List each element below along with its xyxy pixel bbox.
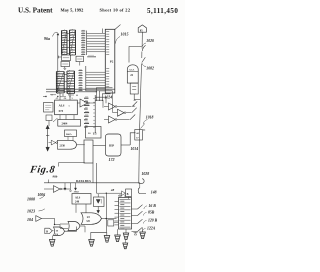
header: Sheet 10 of 22 [100, 8, 131, 13]
IC U15 small box [65, 130, 77, 140]
wire bus taps [64, 183, 77, 192]
buffer U17 [122, 191, 126, 196]
svg-text:ALS: ALS [75, 196, 81, 199]
svg-text:Sheet 10 of 22: Sheet 10 of 22 [100, 8, 131, 13]
arrow up connector [46, 125, 49, 135]
IC U16 with pin rows [115, 194, 132, 229]
wire U6 to IEP [93, 145, 106, 147]
svg-text:104: 104 [27, 217, 33, 222]
svg-text:172: 172 [109, 157, 115, 162]
wire stubs near GND6 [134, 233, 138, 236]
node 1006 label [38, 193, 46, 197]
off-page connector 85 (pentagon) [138, 25, 146, 33]
svg-text:IEP: IEP [109, 144, 114, 148]
DATA BUS label [76, 179, 91, 183]
component small box X2 [108, 220, 119, 226]
svg-text:U5: U5 [93, 131, 97, 135]
gate U10 AND [52, 227, 76, 237]
component R5 bracket 44-17 [130, 130, 142, 146]
IC U7 2404 box [58, 115, 81, 126]
wire left vertical with top hook [57, 34, 59, 90]
svg-text:1018: 1018 [146, 115, 154, 119]
svg-text:42: 42 [134, 100, 136, 102]
gate U12 small OR [60, 222, 85, 233]
IC U2 ALS573 latch [55, 100, 78, 115]
svg-text:P2: P2 [110, 59, 114, 63]
svg-text:B: B [127, 193, 129, 196]
buffer U13 small [49, 140, 58, 145]
wire main right rail [139, 32, 143, 183]
wire from P2 top corner [115, 25, 121, 30]
buffer U9 on data bus [44, 186, 70, 193]
oscillator Y1 (dome can) [127, 65, 138, 83]
IC U11 ALS240 [72, 190, 91, 204]
ground GND4 [115, 229, 121, 241]
svg-text:85B: 85B [148, 211, 155, 215]
svg-text:5,111,450: 5,111,450 [147, 7, 178, 15]
node 96a label with leader [44, 32, 59, 41]
svg-text:1023: 1023 [27, 209, 35, 214]
gate U14 2150 [58, 140, 85, 149]
switch S4 with net label 16 B [132, 204, 157, 209]
wire data bus [44, 182, 140, 185]
svg-text:122A: 122A [147, 227, 156, 231]
node 98b label [49, 175, 58, 183]
svg-text:48: 48 [110, 188, 115, 192]
junction dots row [43, 94, 78, 97]
component small box X1 [46, 115, 58, 126]
pin labels above U2 [56, 97, 74, 100]
node 1028 label [142, 172, 150, 176]
switch S1 contact [142, 45, 145, 51]
wire capacitor bottom to rail [134, 94, 140, 100]
header: patent number 5,111,450 [147, 7, 178, 15]
IC IEP box [106, 134, 122, 156]
switch S6 with net label 120 B [132, 219, 158, 224]
buffer U2b triangle [77, 99, 95, 107]
wire drops from U6 to data bus [93, 163, 97, 193]
node 1018 label with leader [141, 115, 154, 131]
gate U8 OR [81, 213, 117, 225]
ground GND3 [104, 236, 110, 243]
wire links J1a-J1b [67, 34, 70, 54]
wire links J2a-J2b [64, 75, 67, 89]
capacitor block C1 [130, 83, 138, 94]
wire bus A (8 lines) [87, 33, 106, 51]
buffer U3c [109, 116, 130, 123]
svg-text:DATA BUS: DATA BUS [76, 179, 91, 183]
node 1082 label with leader [142, 63, 154, 70]
buffer 104 [27, 216, 60, 228]
node 1020 label with leader [143, 39, 154, 46]
svg-text:1004: 1004 [74, 190, 80, 193]
node 148 label [151, 190, 157, 194]
header: date May 5, 1992 [61, 8, 84, 13]
resistor pack RP3 box [76, 56, 84, 65]
node 1015 label with leader [116, 31, 129, 43]
header: U.S. Patent [18, 7, 53, 15]
ground GND2 [89, 240, 95, 247]
wire IEP to bracket [121, 144, 130, 146]
wire drop D1 [60, 89, 70, 100]
wire gate output junction to grounds [91, 193, 107, 240]
switch S7 with net label 122A [132, 227, 156, 232]
pin labels column A0-A7 [84, 95, 95, 133]
svg-text:U.S. Patent: U.S. Patent [18, 7, 53, 15]
wire stub above bus A [102, 29, 104, 34]
pin numbers column J1 [81, 30, 86, 55]
wire oscillator top to rail [129, 47, 142, 63]
component D1 box with down arrow [94, 194, 105, 213]
wire bends to address bus [96, 88, 112, 101]
wire buffer inputs [104, 91, 118, 120]
wire under gate [59, 163, 85, 167]
ground GND5 [123, 229, 129, 239]
svg-text:96a: 96a [44, 36, 50, 41]
arrow down connector [46, 136, 50, 152]
svg-text:1028: 1028 [142, 172, 150, 176]
switch S2 contact [142, 57, 146, 62]
ribbon cable J2a [56, 71, 64, 95]
node 1023 label with leader [27, 209, 45, 214]
wire horizontal H2 [46, 91, 97, 92]
svg-text:1082: 1082 [146, 66, 154, 70]
node 172 label [109, 157, 115, 162]
ground GND6 [140, 228, 146, 239]
svg-text:ACA: ACA [129, 69, 135, 72]
ribbon cable J2b [67, 70, 75, 95]
figure label Fig.8 [28, 165, 56, 176]
wire EB to U16 [124, 195, 126, 198]
IC P2 (processor) [105, 29, 115, 93]
ribbon cable J1a [62, 30, 68, 56]
svg-text:120 B: 120 B [148, 219, 158, 223]
svg-text:1014: 1014 [131, 147, 139, 151]
buffer U3a [109, 103, 132, 110]
connector B pentagon [45, 228, 53, 233]
buffer U3b [118, 109, 132, 116]
ground GND7 lower [123, 240, 128, 249]
wire bends lower [96, 97, 107, 108]
pin numbers under bus A [87, 55, 96, 57]
connector hook 1028 [139, 179, 144, 184]
svg-text:1008: 1008 [27, 197, 35, 202]
IC U6 tall box [84, 140, 93, 163]
svg-text:May 5, 1992: May 5, 1992 [61, 8, 84, 13]
svg-text:260A: 260A [66, 133, 72, 136]
wire bus B (8 lines) [86, 72, 106, 91]
IC EB box [126, 189, 132, 199]
svg-text:148: 148 [151, 190, 157, 194]
svg-text:B: B [46, 230, 48, 233]
IC U2a small box [44, 103, 54, 113]
wire horizontal H1 [46, 88, 115, 90]
svg-text:240: 240 [75, 201, 80, 204]
svg-text:98b: 98b [53, 175, 58, 179]
resistor pack RP1 box [58, 55, 71, 61]
svg-text:573: 573 [59, 109, 64, 113]
svg-text:16 B: 16 B [149, 204, 157, 208]
ribbon cable J1b [70, 29, 76, 56]
IC U5 box [86, 127, 102, 139]
switch S5 with net label 85B [132, 211, 155, 216]
svg-text:2150: 2150 [60, 144, 66, 147]
resistor pack RP2 box [61, 62, 70, 70]
svg-text:2404: 2404 [62, 122, 68, 126]
svg-text:1020: 1020 [146, 39, 154, 43]
svg-text:ALS: ALS [59, 104, 65, 108]
node 1014 label [131, 147, 139, 151]
ground GND1 [49, 236, 55, 247]
wire to buffer [97, 192, 122, 194]
node 1008 label with leader [27, 195, 45, 202]
svg-text:1015: 1015 [121, 31, 129, 36]
pin numbers column J2 [79, 66, 86, 91]
wire U11 to gates [76, 204, 86, 213]
node 1024 label under P2 [105, 95, 113, 99]
switch S3 contacts at rail [130, 100, 137, 120]
node 48 label [110, 188, 115, 192]
connector hook 148 [138, 183, 146, 193]
svg-text:1006: 1006 [38, 193, 46, 197]
